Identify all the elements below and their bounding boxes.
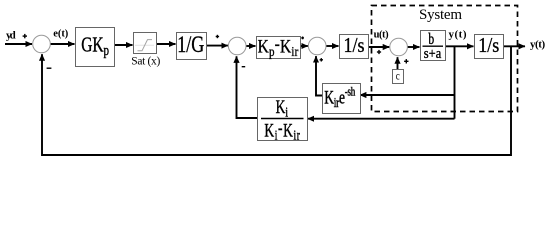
svg-text:u(t): u(t) (374, 29, 390, 40)
svg-text:1/G: 1/G (177, 33, 204, 57)
svg-text:Sat (x): Sat (x) (131, 55, 160, 67)
svg-text:s+a: s+a (424, 45, 442, 61)
svg-text:e(t): e(t) (53, 29, 69, 40)
svg-text:System: System (419, 7, 462, 23)
svg-text:y(t): y(t) (530, 39, 546, 51)
svg-text:c: c (396, 70, 400, 82)
svg-text:1/s: 1/s (478, 34, 499, 58)
svg-text:1/s: 1/s (344, 34, 365, 58)
svg-text:y(t): y(t) (449, 28, 467, 40)
svg-text:yd: yd (6, 29, 16, 41)
